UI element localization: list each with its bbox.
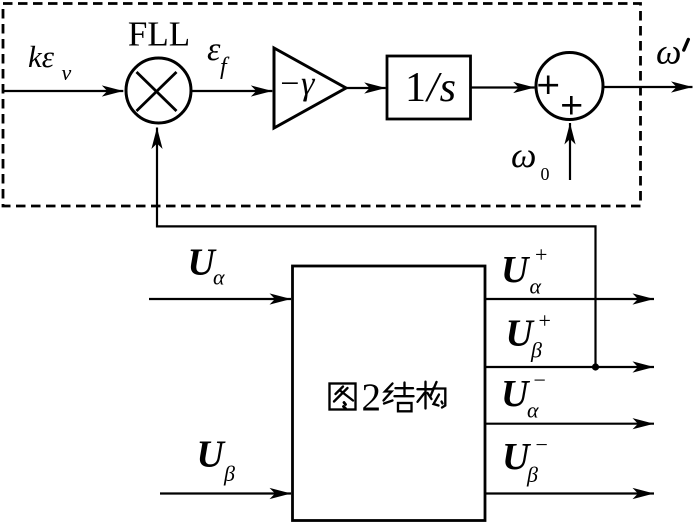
svg-text:ε: ε [207,31,221,68]
svg-text:α: α [530,274,542,299]
wire: omega_0 arrow into summer [569,123,571,180]
svg-text:α: α [213,265,225,290]
svg-text:0: 0 [541,164,550,184]
svg-text:+: + [535,242,547,267]
svg-text:β: β [530,338,542,363]
main block (Fig.2 structure) [293,266,486,521]
summer S1 (circle with two plus signs) [536,53,603,120]
svg-text:U: U [197,434,227,476]
junction dot on U_beta+ line [592,363,599,370]
svg-text:−: − [536,432,548,457]
label 图2结构 (drawn glyphs) [330,384,356,410]
svg-text:+: + [539,308,551,333]
wire: multiplier to gain triangle [191,90,272,92]
svg-text:−: − [534,368,546,393]
svg-text:β: β [223,461,235,486]
wire: output 1 arrow [486,298,654,300]
wire: triangle to integrator [346,87,386,89]
svg-text:U: U [501,249,531,291]
wire: U_beta input arrow [160,492,291,494]
svg-text:ω: ω [511,135,536,175]
svg-text:β: β [526,462,538,487]
svg-text:v: v [62,60,72,85]
wire: input arrow into multiplier [4,90,123,92]
dashed FLL boundary box [3,4,641,207]
wire: summer output arrow [603,86,693,88]
svg-text:α: α [527,397,539,422]
wire: U_alpha input arrow [149,298,291,300]
integrator block 1/s [387,56,471,119]
gain amplifier A1 (triangle -gamma) [274,48,346,128]
wire: output 2 arrow [486,366,654,368]
svg-text:FLL: FLL [128,15,190,54]
svg-text:2: 2 [362,376,382,419]
multiplier M1 (circle with X) [126,58,191,123]
glyphs jie gou [384,382,446,412]
wire: output 4 arrow [486,492,654,494]
svg-text:kε: kε [28,39,55,74]
wire: feedback vertical from junction up [157,128,596,368]
svg-text:ω: ω [656,31,681,71]
svg-text:1/s: 1/s [405,65,457,111]
glyph tu (enclosure) [330,384,356,410]
svg-text:−γ: −γ [278,66,316,103]
wire: output 3 arrow [486,423,654,425]
wire: integrator to summer [471,86,535,88]
